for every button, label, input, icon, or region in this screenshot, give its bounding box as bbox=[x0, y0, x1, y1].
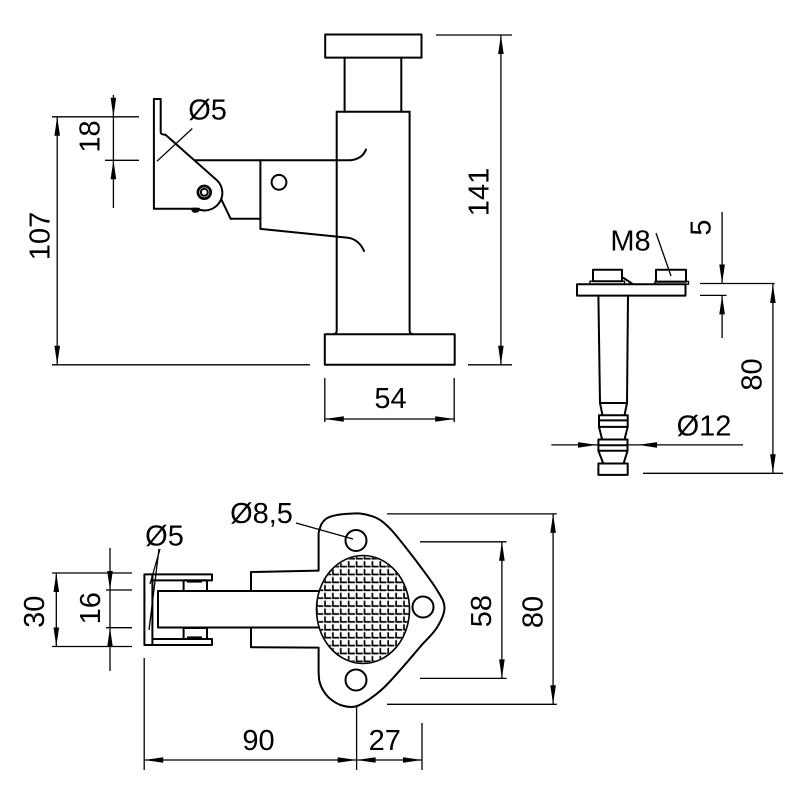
dim 107 line bbox=[56, 117, 58, 365]
dim d12 arrowheads bbox=[578, 442, 657, 448]
dim 58 line bbox=[501, 542, 503, 679]
bolt view: left washer bbox=[590, 281, 625, 284]
bolt view: chamfer line near left head bbox=[624, 278, 632, 284]
svg-text:27: 27 bbox=[369, 725, 401, 757]
side view: pivot rivet outer circle bbox=[198, 186, 211, 199]
dim 80 plan arrowheads bbox=[550, 514, 556, 704]
plan view: flange outline bbox=[319, 513, 445, 707]
side view: column left edge with base fillet bbox=[333, 112, 337, 334]
plan view: bottom hole bbox=[346, 670, 367, 691]
plan view: clamp top bar bbox=[152, 574, 212, 580]
side view: bracket hole bbox=[272, 175, 287, 190]
side view: swing arm bottom tab bbox=[192, 209, 199, 212]
svg-text:58: 58 bbox=[466, 595, 498, 627]
plan view: top hinge block bbox=[184, 580, 207, 591]
svg-text:80: 80 bbox=[517, 596, 549, 628]
side view: neck bbox=[345, 58, 402, 112]
dim 16 extension lines bbox=[106, 590, 132, 628]
svg-text:5: 5 bbox=[686, 219, 718, 235]
dim 5 extension lines bbox=[700, 284, 775, 296]
plan view: bottom hinge grip strip bbox=[187, 636, 202, 639]
bolt view: M8 leader bbox=[656, 233, 671, 276]
side view: swing arm diagonal edge bbox=[166, 135, 216, 179]
dim 90 arrowheads bbox=[144, 757, 356, 763]
dim d12 line right bbox=[628, 444, 744, 446]
dim 30 extension lines bbox=[52, 573, 132, 647]
plan view: top hinge grip strip bbox=[187, 580, 202, 583]
svg-text:80: 80 bbox=[737, 358, 769, 390]
dim 54 arrowheads bbox=[325, 416, 454, 422]
plan view: arm bbox=[158, 591, 330, 628]
side view: top cap bbox=[325, 35, 421, 58]
dim 80 bolt line bbox=[772, 284, 774, 473]
svg-text:30: 30 bbox=[19, 596, 51, 628]
dim 54 extension lines bbox=[325, 378, 454, 422]
svg-text:141: 141 bbox=[464, 168, 496, 216]
dim 54 line bbox=[325, 418, 454, 420]
side view: column right edge with base fillet bbox=[410, 112, 414, 334]
svg-text:Ø5: Ø5 bbox=[188, 94, 227, 126]
leaders for diameter 5 plan view bbox=[149, 549, 160, 630]
side view: column top edge bbox=[337, 111, 410, 113]
dim 5 line upper and lower bbox=[721, 212, 723, 338]
dim 141 arrowheads bbox=[498, 35, 504, 365]
svg-text:16: 16 bbox=[75, 592, 107, 624]
dim 107/141 bottom extension line left bbox=[52, 364, 310, 366]
svg-text:18: 18 bbox=[75, 120, 107, 152]
bolt view: left screw head bbox=[593, 270, 622, 282]
bolt view: right screw head bbox=[656, 270, 686, 282]
side view: arm top edge with curl into column bbox=[195, 150, 366, 161]
bolt view: taper 1 bbox=[600, 403, 627, 415]
bolt view: right washer bbox=[655, 281, 689, 284]
svg-text:107: 107 bbox=[25, 212, 57, 260]
dim 90/27 line bbox=[144, 759, 422, 761]
dim 5 arrowheads bbox=[719, 265, 725, 315]
side view: bracket vertical edge bbox=[259, 160, 261, 229]
dim 30 arrowheads bbox=[54, 573, 60, 647]
dim 141 top extension line bbox=[436, 34, 512, 36]
leader for diameter 5 side view bbox=[157, 129, 192, 162]
side view: swing arm bottom edge bbox=[154, 208, 197, 210]
bolt view: band 2 bbox=[598, 440, 627, 451]
side view: fork plate bottom edge bbox=[231, 218, 261, 220]
dim 16 line bbox=[109, 548, 111, 671]
side view: pivot rivet inner circle bbox=[201, 189, 208, 196]
plan view: knurled pad bbox=[317, 556, 410, 664]
dim 18 arrowheads bbox=[111, 98, 117, 180]
svg-text:Ø12: Ø12 bbox=[677, 411, 732, 443]
leader for diameter 8,5 bbox=[296, 523, 353, 539]
dim 80 bolt arrowheads bbox=[770, 284, 776, 473]
bolt view: taper 3 bbox=[598, 451, 627, 464]
dim 58 arrowheads bbox=[499, 542, 505, 679]
svg-text:Ø5: Ø5 bbox=[145, 521, 184, 553]
dim 141 bottom extension line right bbox=[468, 364, 512, 366]
plan view: clamp bottom bar bbox=[152, 639, 212, 645]
bolt view: end cap bbox=[598, 464, 627, 475]
dim 27 arrowheads bbox=[357, 757, 422, 763]
svg-text:Ø8,5: Ø8,5 bbox=[230, 498, 293, 530]
dim d12 line left bbox=[551, 444, 598, 446]
dim 18 line bbox=[112, 95, 114, 208]
dim 107 arrowheads bbox=[54, 117, 60, 365]
side view: swing arm pivot boss arc bbox=[197, 179, 222, 210]
dim 58 extension lines bbox=[420, 542, 507, 679]
dim 80 plan extension lines bbox=[387, 514, 557, 704]
dim 30 line bbox=[55, 573, 57, 647]
svg-text:90: 90 bbox=[242, 725, 274, 757]
plan view: top hole bbox=[346, 530, 367, 551]
svg-text:M8: M8 bbox=[610, 226, 650, 258]
plan view: right hole bbox=[413, 597, 434, 618]
dim 18/107 shared top extension line bbox=[52, 116, 139, 118]
bolt view: flange plate bbox=[577, 284, 686, 295]
side view: clamp wall plate bbox=[154, 99, 166, 209]
plan view: wide block bbox=[251, 571, 319, 648]
plan view: wall plate bbox=[144, 574, 152, 645]
side view: bracket bottom sloped edge with curl bbox=[260, 229, 364, 251]
dim 141 line bbox=[500, 35, 502, 365]
plan view: bottom hinge block bbox=[184, 628, 207, 639]
dim 90/27 extension lines bbox=[144, 658, 422, 770]
dim 18 lower extension line bbox=[105, 159, 139, 161]
svg-text:54: 54 bbox=[374, 383, 406, 415]
dim 16 arrowheads bbox=[107, 571, 113, 647]
side view: jaw diagonal below pivot bbox=[221, 199, 230, 219]
side view: base block bbox=[325, 334, 455, 365]
dim 80 plan line bbox=[552, 514, 554, 704]
bolt view: taper 2 bbox=[599, 427, 628, 439]
dim 80 bolt extension bottom bbox=[643, 472, 783, 474]
bolt view: band 1 bbox=[599, 415, 628, 427]
bolt view: shaft bbox=[598, 296, 628, 403]
